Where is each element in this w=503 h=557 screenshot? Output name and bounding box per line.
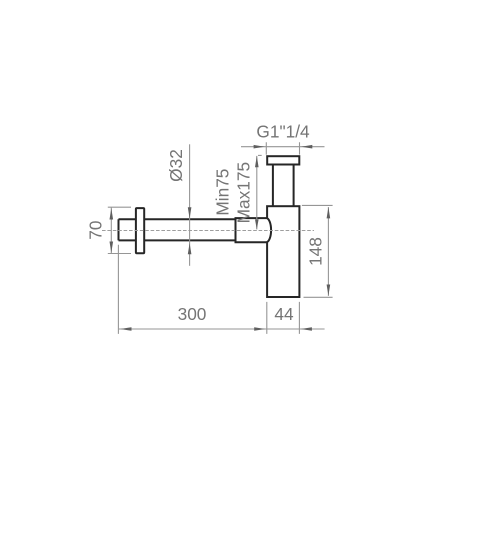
- svg-text:44: 44: [274, 304, 294, 324]
- dimension 70: dimension line: [110, 208, 112, 254]
- dimension G1"1/4: extension lines: [266, 142, 299, 154]
- dimension G1"1/4: left arrow: [254, 145, 265, 149]
- dimension 148: dimension line: [327, 207, 329, 296]
- riser tube: [273, 165, 294, 207]
- inlet sleeve with rounded end: [236, 218, 272, 242]
- svg-text:300: 300: [178, 304, 207, 324]
- dimension 148: up arrow: [327, 207, 331, 218]
- dimension 300: left arrow: [120, 327, 131, 331]
- svg-text:Max175: Max175: [234, 162, 254, 223]
- dimension Min75/Max175: top tick: [258, 154, 262, 156]
- dimension 300/44: extension lines: [118, 245, 299, 334]
- centerline: [102, 230, 314, 232]
- svg-text:70: 70: [86, 220, 106, 239]
- svg-text:G1"1/4: G1"1/4: [256, 122, 310, 142]
- wall flange: [136, 208, 144, 253]
- dimension Min75/Max175: up arrow: [255, 156, 259, 167]
- top nut (G1"1/4 connection): [267, 156, 299, 164]
- dimension G1"1/4: dimension line: [241, 146, 325, 148]
- dimension Ø32: dimension line: [189, 144, 191, 265]
- dimension G1"1/4: right arrow: [301, 145, 312, 149]
- dimension Min75/Max175: down arrow: [255, 219, 259, 229]
- dimension 70: extension lines: [108, 207, 131, 253]
- svg-text:Ø32: Ø32: [166, 149, 186, 182]
- body (bottle trap cup): [267, 206, 299, 297]
- svg-text:Min75: Min75: [212, 169, 232, 216]
- dimension 300/44: dimension line: [119, 328, 325, 330]
- dimension Ø32: up arrow: [188, 243, 192, 254]
- horizontal outlet pipe: [119, 219, 236, 240]
- dimension 148: extension lines: [302, 205, 333, 297]
- dimension 70: up arrow: [110, 208, 114, 219]
- dimension Ø32: down arrow: [188, 207, 192, 218]
- dimension 44: outer arrow: [301, 327, 312, 331]
- dimension 300: right arrow: [254, 327, 265, 331]
- dimension Min75/Max175: dimension line: [256, 156, 258, 230]
- dimension 70: down arrow: [110, 242, 114, 253]
- dimension 148: down arrow: [327, 285, 331, 296]
- svg-text:148: 148: [305, 237, 325, 266]
